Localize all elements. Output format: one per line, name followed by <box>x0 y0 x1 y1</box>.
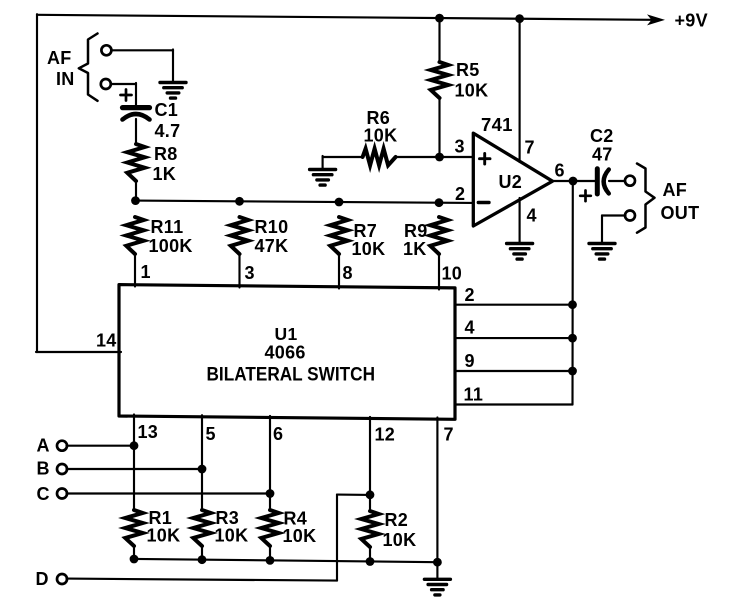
svg-text:IN: IN <box>56 69 75 89</box>
wire R3 to ground bus <box>201 546 203 560</box>
pin label 2 of U2 <box>455 184 465 204</box>
terminal B <box>57 464 67 474</box>
svg-text:47K: 47K <box>255 236 289 256</box>
node bus R4 <box>266 556 275 565</box>
label A <box>37 436 50 456</box>
svg-text:10K: 10K <box>147 526 181 546</box>
wire R8 to bus <box>135 181 137 202</box>
terminal AF OUT lower <box>625 211 635 221</box>
label AF OUT <box>661 180 700 223</box>
svg-text:D: D <box>36 569 49 589</box>
op-amp U2 741 triangle <box>473 133 552 226</box>
svg-text:47: 47 <box>592 145 613 165</box>
wire U1 pin 6 down <box>269 416 271 510</box>
svg-text:8: 8 <box>343 263 353 283</box>
svg-text:R7: R7 <box>354 221 378 241</box>
label U2 <box>499 172 523 192</box>
node bus R2 <box>366 557 375 566</box>
svg-text:741: 741 <box>481 114 513 135</box>
pin label 7 of U2 <box>525 138 535 158</box>
wire U1 pin 13 down <box>133 415 135 511</box>
resistor R3 <box>193 510 210 546</box>
label R10 value <box>255 217 289 256</box>
svg-text:4: 4 <box>465 318 475 338</box>
svg-text:4.7: 4.7 <box>155 121 181 141</box>
svg-text:2: 2 <box>455 184 465 204</box>
terminal AF IN upper <box>101 45 111 55</box>
capacitor C1 <box>123 108 150 120</box>
svg-text:BILATERAL SWITCH: BILATERAL SWITCH <box>207 365 376 386</box>
wire left rail from +9V down to U1 pin 14 <box>36 14 121 352</box>
wire R11 to U1 pin 1 <box>134 254 136 287</box>
svg-text:10K: 10K <box>364 126 398 146</box>
terminal AF OUT upper <box>625 176 635 186</box>
wire U1 pin 7 down to ground bus <box>436 418 438 563</box>
wire U2 output to C2 <box>553 180 596 182</box>
wire AF OUT lower to ground <box>602 216 626 243</box>
node A junction <box>130 441 139 450</box>
svg-text:AF: AF <box>47 48 72 68</box>
node rail-pin7 junction <box>515 14 524 23</box>
node pin2 junction <box>568 300 577 309</box>
capacitor C2 polarity + <box>580 191 591 202</box>
node bus pin7 <box>433 558 442 567</box>
terminal D <box>57 574 67 584</box>
svg-text:R11: R11 <box>151 217 184 237</box>
svg-text:10: 10 <box>442 264 463 284</box>
svg-text:10K: 10K <box>352 239 386 259</box>
label 741 <box>481 114 513 135</box>
svg-text:4066: 4066 <box>265 343 306 363</box>
node pin9 junction <box>568 367 577 376</box>
svg-text:OUT: OUT <box>661 203 700 223</box>
svg-text:100K: 100K <box>149 236 193 256</box>
svg-text:U2: U2 <box>499 172 523 192</box>
resistor R7 <box>330 217 347 254</box>
label R11 value <box>149 217 193 256</box>
label D <box>36 569 49 589</box>
pin label 1 of U1 <box>141 262 151 282</box>
label R5 value <box>455 60 489 101</box>
wire R6 to U2 pin 3 <box>396 156 473 158</box>
svg-text:1K: 1K <box>153 164 177 184</box>
wire rail to R5 <box>438 18 440 62</box>
wire U2 pin 7 from rail <box>519 19 521 162</box>
label R7 value <box>352 221 386 259</box>
node B junction <box>198 465 207 474</box>
terminal AF IN lower <box>101 79 111 89</box>
pin label 6 of U2 <box>555 161 565 181</box>
label R9 value <box>403 221 428 259</box>
label R8 value <box>153 144 178 184</box>
svg-text:11: 11 <box>464 384 484 404</box>
svg-text:U1: U1 <box>275 324 298 344</box>
svg-text:R10: R10 <box>255 217 289 237</box>
resistor R1 <box>125 510 142 546</box>
wire B to pin 5 <box>67 468 203 470</box>
pin label 3 of U1 <box>245 263 255 283</box>
node output junction <box>569 177 578 186</box>
node R5-pin3 junction <box>435 153 444 162</box>
svg-text:9: 9 <box>465 351 475 371</box>
label U1 <box>275 324 298 344</box>
node bus R3 <box>198 555 207 564</box>
IC U1 4066 body <box>119 285 455 420</box>
svg-text:3: 3 <box>245 263 255 283</box>
svg-text:10K: 10K <box>383 530 417 550</box>
label C2 value <box>590 126 614 165</box>
wire R4 to ground bus <box>269 546 271 560</box>
capacitor C2 <box>597 169 609 194</box>
svg-text:R5: R5 <box>456 60 480 80</box>
node C junction <box>266 489 275 498</box>
svg-text:5: 5 <box>206 424 216 444</box>
node bus-R10 <box>235 197 244 206</box>
terminal C <box>57 489 67 499</box>
label B <box>37 459 50 479</box>
pin label 11 of U1 <box>464 384 484 404</box>
resistor R8 <box>127 144 144 181</box>
node bus-R9 <box>435 198 444 207</box>
svg-text:13: 13 <box>138 422 159 442</box>
wire U1 pin 4 to feedback <box>455 337 573 339</box>
pin label 7 of U1 <box>444 425 454 445</box>
pin label 4 of U1 <box>465 318 475 338</box>
wire AF IN upper to ground <box>111 50 173 82</box>
resistor R10 <box>231 217 248 254</box>
wire R2 to ground bus <box>369 547 371 562</box>
arrowhead +9V <box>647 14 665 25</box>
svg-text:7: 7 <box>525 138 535 158</box>
svg-text:1K: 1K <box>403 239 427 259</box>
wire top +9V power rail <box>37 15 652 20</box>
pin label 13 of U1 <box>138 422 159 442</box>
resistor R4 <box>261 510 278 546</box>
wire U1 pin 2 to feedback <box>455 304 573 306</box>
pin label 6 of U1 <box>273 424 283 444</box>
svg-text:10K: 10K <box>455 81 489 101</box>
node D junction <box>366 490 375 499</box>
pin label 10 of U1 <box>442 264 463 284</box>
wire AF IN lower to C1 <box>111 83 136 106</box>
resistor R5 <box>431 62 448 98</box>
pin label 9 of U1 <box>465 351 475 371</box>
capacitor C1 polarity + <box>121 90 132 101</box>
svg-text:14: 14 <box>96 331 117 351</box>
wire U1 pin 5 down <box>201 415 203 510</box>
resistor R9 <box>430 217 447 254</box>
pin label 5 of U1 <box>206 424 216 444</box>
label R1 value <box>147 508 181 546</box>
label R6 value <box>364 108 398 146</box>
wire U1 pin 9 to feedback <box>455 370 573 372</box>
wire bus to U2 pin 2 <box>135 201 473 203</box>
wire C1 to R8 <box>135 119 137 144</box>
wire R5 to pin3 line <box>438 98 440 157</box>
svg-text:AF: AF <box>663 180 688 200</box>
wire C2 to AF OUT upper <box>609 180 626 182</box>
wire U1 pin 12 down <box>369 417 371 510</box>
svg-text:C1: C1 <box>155 100 179 120</box>
label BILATERAL SWITCH <box>207 365 376 386</box>
svg-text:4: 4 <box>527 206 537 226</box>
svg-text:7: 7 <box>444 425 454 445</box>
svg-text:C2: C2 <box>590 126 614 146</box>
wire output feedback down right side <box>571 181 573 405</box>
wire ground bus <box>134 559 437 562</box>
svg-text:6: 6 <box>273 424 283 444</box>
svg-text:R8: R8 <box>154 144 178 164</box>
resistor R11 <box>126 217 143 254</box>
wire D to pin 12 <box>67 495 371 581</box>
label +9V <box>675 11 708 31</box>
node bus-R8/R11 <box>131 196 140 205</box>
label R4 value <box>283 509 317 547</box>
wire R9 to U1 pin 10 <box>438 254 440 290</box>
svg-text:2: 2 <box>465 285 475 305</box>
svg-text:10K: 10K <box>215 526 249 546</box>
wire stub to main ground <box>436 562 438 578</box>
node rail-R5 junction <box>435 14 444 23</box>
ground AF OUT <box>589 244 615 260</box>
resistor R6 <box>363 149 396 166</box>
op-amp + input symbol <box>480 153 491 164</box>
node bus-R7 <box>335 198 344 207</box>
svg-text:A: A <box>37 436 50 456</box>
label 4066 <box>265 343 306 363</box>
resistor R2 <box>361 511 378 547</box>
terminal A <box>57 441 67 451</box>
svg-text:10K: 10K <box>283 526 317 546</box>
pin label 12 of U1 <box>375 425 396 445</box>
wire R7 to U1 pin 8 <box>338 254 340 289</box>
pin label 4 of U2 <box>527 206 537 226</box>
op-amp - input symbol <box>478 201 489 204</box>
wire A to pin 13 <box>67 445 135 447</box>
wire R1 to ground bus <box>133 546 135 559</box>
svg-text:+9V: +9V <box>675 11 708 31</box>
label C <box>37 484 50 504</box>
ground R6 <box>310 170 336 186</box>
svg-text:R9: R9 <box>404 221 428 241</box>
ground U2 pin 4 <box>507 244 533 260</box>
svg-text:6: 6 <box>555 161 565 181</box>
pin label 14 of U1 <box>96 331 117 351</box>
wire U2 pin 4 to ground <box>519 198 521 242</box>
node bus R1 <box>130 555 139 564</box>
svg-text:C: C <box>37 484 50 504</box>
pin label 3 of U2 <box>455 137 465 157</box>
label C1 value <box>155 100 181 141</box>
label R3 value <box>215 508 249 546</box>
label AF IN <box>47 48 75 89</box>
ground main <box>424 579 450 595</box>
svg-text:B: B <box>37 459 50 479</box>
svg-text:R2: R2 <box>385 510 409 530</box>
pin label 2 of U1 <box>465 285 475 305</box>
wire U1 pin 11 to feedback <box>455 403 573 405</box>
node pin4 junction <box>568 334 577 343</box>
svg-text:12: 12 <box>375 425 396 445</box>
wire C to pin 6 <box>67 492 271 494</box>
wire R10 to U1 pin 3 <box>238 254 240 288</box>
wire ground stub to R6 <box>323 156 363 168</box>
pin label 8 of U1 <box>343 263 353 283</box>
brace AF IN <box>79 34 98 101</box>
label R2 value <box>383 510 417 550</box>
svg-text:3: 3 <box>455 137 465 157</box>
svg-text:1: 1 <box>141 262 151 282</box>
brace AF OUT <box>637 164 655 233</box>
ground AF IN <box>160 83 186 99</box>
